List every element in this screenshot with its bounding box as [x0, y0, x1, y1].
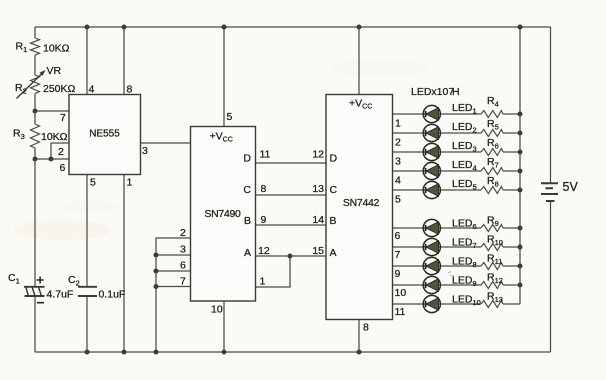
svg-text:10: 10: [395, 287, 407, 299]
svg-text:8: 8: [363, 322, 369, 334]
svg-text:1: 1: [395, 118, 401, 130]
svg-text:14: 14: [312, 214, 324, 226]
svg-text:11: 11: [395, 306, 406, 318]
svg-text:6: 6: [60, 162, 66, 174]
svg-text:LEDx107H: LEDx107H: [411, 86, 460, 98]
svg-text:15: 15: [312, 245, 324, 257]
svg-text:2: 2: [395, 137, 401, 149]
svg-text:9: 9: [261, 214, 267, 226]
svg-text:4: 4: [89, 84, 95, 96]
svg-text:2: 2: [58, 146, 64, 158]
svg-text:10KΩ: 10KΩ: [41, 131, 68, 143]
svg-text:4: 4: [395, 175, 401, 187]
svg-text:1: 1: [127, 177, 133, 189]
svg-text:12: 12: [312, 149, 324, 161]
svg-text:10: 10: [211, 304, 223, 316]
svg-text:6: 6: [180, 260, 186, 272]
svg-text:7: 7: [395, 249, 401, 261]
svg-text:A: A: [244, 247, 251, 259]
svg-text:5: 5: [395, 194, 401, 206]
svg-text:SN7490: SN7490: [204, 208, 241, 220]
svg-text:C: C: [243, 184, 251, 196]
svg-text:3: 3: [395, 156, 401, 168]
svg-text:C: C: [330, 184, 338, 196]
svg-text:B: B: [244, 215, 251, 227]
svg-text:8: 8: [127, 84, 133, 96]
svg-text:10KΩ: 10KΩ: [43, 43, 70, 55]
svg-text:12: 12: [258, 245, 270, 257]
svg-text:6: 6: [395, 230, 401, 242]
svg-text:7: 7: [60, 112, 66, 124]
svg-text:8: 8: [261, 183, 267, 195]
svg-text:250KΩ: 250KΩ: [43, 83, 76, 95]
svg-text:0.1uF: 0.1uF: [99, 289, 126, 301]
svg-text:2: 2: [180, 227, 186, 239]
svg-text:1: 1: [260, 276, 266, 288]
svg-text:13: 13: [312, 183, 324, 195]
svg-text:3: 3: [180, 244, 186, 256]
svg-text:A: A: [330, 247, 337, 259]
svg-text:D: D: [243, 153, 251, 165]
svg-text:9: 9: [395, 268, 401, 280]
svg-text:VR: VR: [47, 65, 62, 77]
svg-text:NE555: NE555: [89, 129, 120, 140]
svg-text:11: 11: [260, 149, 271, 161]
svg-text:B: B: [330, 215, 337, 227]
svg-text:5: 5: [227, 111, 233, 123]
svg-text:D: D: [330, 153, 338, 165]
svg-text:7: 7: [180, 276, 186, 288]
svg-text:SN7442: SN7442: [343, 197, 380, 209]
svg-text:3: 3: [142, 145, 148, 157]
svg-text:5V: 5V: [563, 180, 579, 194]
svg-text:4.7uF: 4.7uF: [47, 289, 74, 301]
svg-text:5: 5: [90, 177, 96, 189]
